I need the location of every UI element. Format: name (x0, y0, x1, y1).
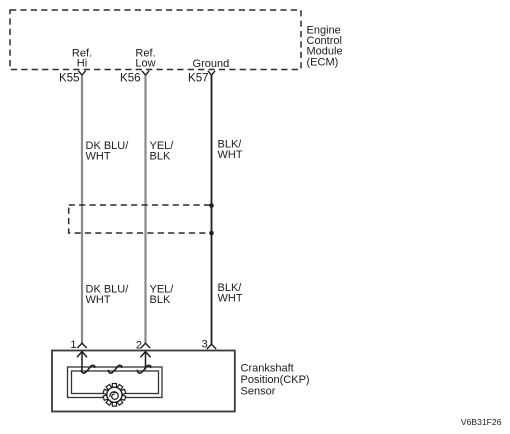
svg-text:3: 3 (202, 339, 208, 351)
svg-text:WHT: WHT (218, 149, 243, 161)
svg-text:K56: K56 (120, 73, 140, 85)
svg-text:BLK: BLK (150, 151, 171, 163)
svg-text:1: 1 (70, 339, 76, 351)
svg-text:WHT: WHT (218, 293, 243, 305)
svg-text:K57: K57 (188, 73, 208, 85)
svg-text:Position(CKP): Position(CKP) (241, 374, 310, 386)
svg-text:Sensor: Sensor (241, 385, 276, 397)
svg-text:V6B31F26: V6B31F26 (461, 417, 502, 427)
svg-text:WHT: WHT (86, 294, 111, 306)
svg-text:Hi: Hi (77, 58, 87, 70)
svg-text:BLK: BLK (150, 294, 171, 306)
svg-text:Crankshaft: Crankshaft (241, 363, 294, 375)
svg-text:WHT: WHT (86, 151, 111, 163)
svg-text:Ground: Ground (193, 58, 230, 70)
svg-text:K55: K55 (59, 73, 79, 85)
svg-text:Low: Low (135, 58, 155, 70)
svg-text:(ECM): (ECM) (307, 56, 339, 68)
